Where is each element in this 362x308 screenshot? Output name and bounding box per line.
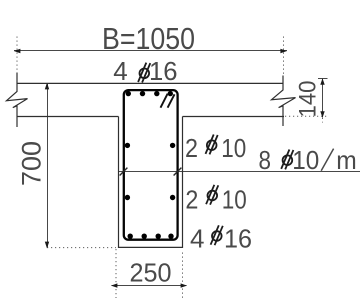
svg-text:10: 10 (292, 145, 319, 175)
svg-text:700: 700 (16, 141, 46, 186)
svg-text:16: 16 (224, 223, 252, 253)
svg-text:4: 4 (113, 56, 127, 86)
svg-text:8: 8 (259, 145, 272, 175)
svg-text:B=1050: B=1050 (102, 23, 195, 57)
svg-text:2: 2 (185, 133, 198, 163)
svg-text:m: m (336, 145, 357, 175)
svg-text:250: 250 (130, 258, 172, 288)
svg-text:2: 2 (185, 185, 198, 215)
svg-text:4: 4 (190, 223, 204, 253)
svg-text:140: 140 (295, 81, 322, 118)
svg-text:10: 10 (221, 133, 246, 163)
svg-text:16: 16 (149, 56, 178, 86)
svg-text:10: 10 (222, 185, 247, 215)
